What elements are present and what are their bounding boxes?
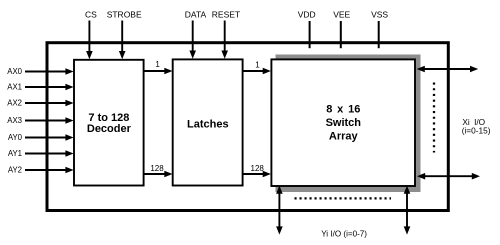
svg-text:1: 1 xyxy=(255,61,260,70)
svg-text:AX3: AX3 xyxy=(7,116,22,125)
svg-text:Yi I/O (i=0-7): Yi I/O (i=0-7) xyxy=(321,229,367,238)
svg-text:AX2: AX2 xyxy=(7,99,22,108)
svg-text:VEE: VEE xyxy=(333,10,350,20)
svg-text:CS: CS xyxy=(85,10,97,20)
svg-text:Switch: Switch xyxy=(326,117,362,129)
svg-text:DATA: DATA xyxy=(185,10,207,20)
svg-text:Decoder: Decoder xyxy=(87,123,132,135)
svg-text:1: 1 xyxy=(155,60,160,69)
svg-text:Array: Array xyxy=(329,131,359,143)
svg-text:128: 128 xyxy=(150,164,164,173)
svg-text:VDD: VDD xyxy=(298,10,316,20)
svg-text:Latches: Latches xyxy=(187,119,229,131)
svg-text:8 x 16: 8 x 16 xyxy=(326,103,360,115)
svg-text:AY0: AY0 xyxy=(8,133,23,142)
svg-text:STROBE: STROBE xyxy=(107,10,142,20)
svg-text:RESET: RESET xyxy=(212,10,240,20)
svg-text:128: 128 xyxy=(251,164,265,173)
svg-text:AX1: AX1 xyxy=(7,83,22,92)
svg-text:VSS: VSS xyxy=(371,10,388,20)
svg-text:AY2: AY2 xyxy=(8,166,22,175)
svg-text:(i=0-15): (i=0-15) xyxy=(462,125,491,135)
svg-text:AX0: AX0 xyxy=(7,67,22,76)
svg-text:AY1: AY1 xyxy=(8,149,22,158)
